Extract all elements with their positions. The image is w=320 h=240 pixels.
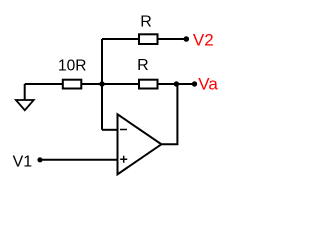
wire: plus input from V1 xyxy=(40,159,118,161)
op-amp U1 triangle xyxy=(118,114,162,174)
resistor R (middle, to Va) xyxy=(139,80,158,89)
svg-text:R: R xyxy=(140,14,152,31)
svg-text:R: R xyxy=(137,57,149,74)
svg-text:10R: 10R xyxy=(58,58,86,75)
terminal dot Va xyxy=(192,81,197,86)
resistor 10R xyxy=(63,80,82,89)
node junction at inverting node xyxy=(99,81,104,86)
terminal dot V2 xyxy=(184,36,190,42)
ground xyxy=(16,84,34,110)
svg-text:V2: V2 xyxy=(193,30,214,49)
wire: middle row horizontal (ground corner to Va terminal) xyxy=(25,83,195,85)
minus sign (inverting input) xyxy=(120,129,127,131)
terminal dot V1 xyxy=(37,157,42,162)
wire: top row horizontal xyxy=(102,38,186,40)
wire: output and feedback up to Va row xyxy=(161,84,177,144)
svg-text:V1: V1 xyxy=(13,153,33,170)
plus sign (non-inverting input) xyxy=(120,156,127,163)
wire: vertical from top row down to minus input xyxy=(101,39,103,130)
wire: minus input xyxy=(102,129,118,131)
junction dot (feedback joins Va row) xyxy=(174,81,179,86)
resistor R (top, to V2) xyxy=(139,34,158,44)
svg-text:Va: Va xyxy=(198,74,218,93)
